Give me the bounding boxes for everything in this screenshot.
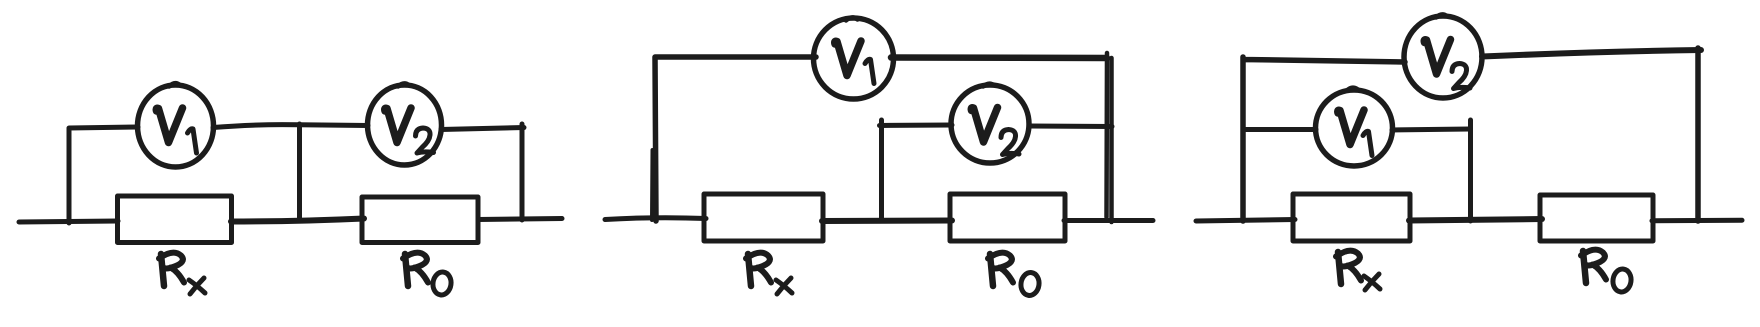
circuit 1: resistor R0	[362, 197, 478, 243]
circuit 2: wire V1 right top link	[891, 54, 1107, 61]
circuit 2: label R0	[988, 253, 1041, 297]
circuit 1: wire V1 left branch	[69, 127, 138, 223]
circuit 1: label V2	[385, 108, 434, 153]
circuit 3: voltmeter V2	[1404, 16, 1482, 98]
circuit 3: voltmeter V1	[1316, 90, 1393, 166]
circuit 2: wire main bus middle segment (node between Rx and R0)	[822, 218, 952, 225]
circuit 1: wire main bus left segment	[19, 221, 118, 222]
circuit 3: wire right vertical	[1695, 48, 1701, 221]
circuit 3: label V1	[1338, 110, 1372, 156]
circuit 2: label V2	[971, 108, 1019, 155]
circuit 1: label R0	[403, 253, 453, 297]
circuit 3: label R0	[1581, 250, 1633, 294]
circuit 1: label V1	[156, 108, 196, 153]
circuit 2: wire V1 left branch doubled stroke	[650, 150, 655, 220]
circuit 2: wire main bus right segment	[1064, 218, 1153, 223]
circuit 1: wire main bus right segment	[478, 219, 562, 220]
circuit 2: wire V1 left branch	[655, 57, 816, 221]
circuit 3: resistor R0	[1540, 195, 1653, 241]
circuit 3: label Rx	[1336, 251, 1380, 290]
circuit 2: wire main bus left segment	[605, 218, 706, 220]
circuit 1: wire right vertical	[520, 124, 525, 220]
circuit 2: wire right vertical	[1104, 53, 1109, 217]
circuit 3: wire V1 right horizontal	[1392, 129, 1470, 130]
circuit 3: wire middle junction tap	[1468, 120, 1473, 221]
circuit 3: wire V2 left branch	[1243, 57, 1405, 221]
circuit 3: wire V1 left horizontal	[1243, 127, 1316, 132]
circuit 3: wire main bus left segment	[1196, 220, 1295, 222]
circuit 2: label V1	[835, 41, 874, 84]
circuit 2: wire V2 right horizontal	[1029, 124, 1112, 130]
circuit 1: wire main bus middle segment (node between Rx and R0)	[231, 219, 364, 222]
circuit 2: wire V2 left horizontal	[880, 123, 953, 129]
circuit 3: wire main bus right segment	[1652, 218, 1742, 224]
circuit 2: wire V2 left tap vertical	[879, 120, 884, 220]
circuit 1: wire V1-V2 top link	[213, 125, 368, 128]
circuit 2: label Rx	[746, 253, 792, 294]
circuit 3: wire V2 right top link	[1482, 50, 1701, 57]
circuit 1: resistor Rx	[118, 196, 232, 243]
circuit 1: label Rx	[159, 253, 205, 294]
circuit 2: voltmeter V1	[814, 18, 894, 99]
circuit 3: wire main bus middle segment (node between Rx and R0)	[1409, 219, 1542, 221]
circuit 3: label V2	[1424, 40, 1470, 89]
circuit 1: wire middle junction tap	[297, 124, 302, 221]
circuit 1: wire V2 right branch	[441, 128, 524, 130]
circuit 3: resistor Rx	[1293, 194, 1410, 241]
circuit 2: resistor Rx	[704, 194, 823, 241]
circuit 1: voltmeter V2	[368, 85, 442, 165]
circuit 1: voltmeter V1	[138, 85, 214, 167]
circuit 2: voltmeter V2	[951, 85, 1029, 163]
circuit 2: resistor R0	[950, 194, 1065, 241]
